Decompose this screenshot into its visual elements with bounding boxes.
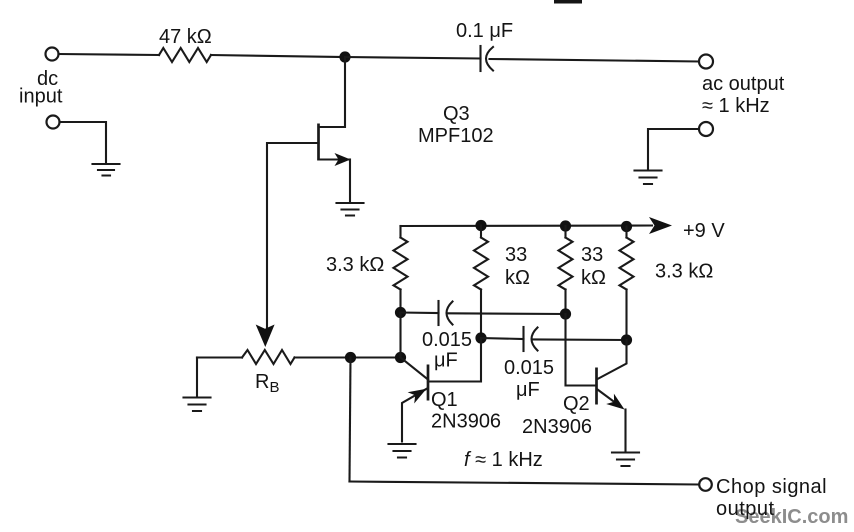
svg-text:MPF102: MPF102: [418, 125, 494, 147]
svg-text:+9 V: +9 V: [683, 220, 725, 242]
svg-text:output: output: [716, 498, 775, 520]
svg-text:Q1: Q1: [431, 389, 458, 411]
svg-text:2N3906: 2N3906: [522, 416, 592, 438]
svg-text:≈ 1 kHz: ≈ 1 kHz: [702, 95, 770, 117]
svg-text:0.015: 0.015: [422, 329, 472, 351]
svg-text:33: 33: [505, 244, 527, 266]
svg-text:μF: μF: [516, 379, 540, 401]
svg-text:f ≈ 1 kHz: f ≈ 1 kHz: [464, 449, 543, 471]
svg-text:2N3906: 2N3906: [431, 411, 501, 433]
svg-text:input: input: [19, 86, 63, 108]
svg-text:μF: μF: [434, 350, 458, 372]
svg-text:33: 33: [581, 244, 603, 266]
svg-text:3.3 kΩ: 3.3 kΩ: [655, 261, 713, 283]
svg-text:Chop signal: Chop signal: [716, 476, 827, 498]
svg-text:0.015: 0.015: [504, 357, 554, 379]
svg-text:kΩ: kΩ: [505, 267, 530, 289]
svg-text:Q3: Q3: [443, 103, 470, 125]
svg-text:0.1 μF: 0.1 μF: [456, 20, 513, 42]
svg-text:47 kΩ: 47 kΩ: [159, 26, 212, 48]
svg-text:kΩ: kΩ: [581, 267, 606, 289]
svg-text:3.3 kΩ: 3.3 kΩ: [326, 254, 384, 276]
svg-text:ac output: ac output: [702, 73, 785, 95]
svg-text:Q2: Q2: [563, 393, 590, 415]
